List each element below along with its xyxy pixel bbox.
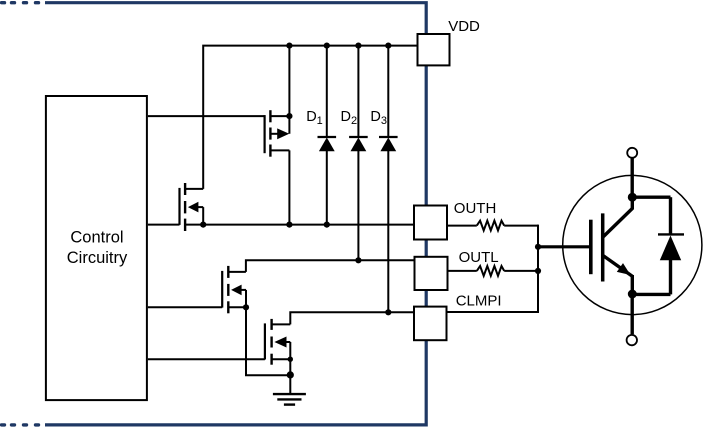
terminal collector — [627, 148, 637, 158]
node M3 source/body — [243, 304, 249, 310]
control circuitry block — [46, 96, 147, 400]
node CLMPI-D3 — [385, 309, 391, 315]
node emitter — [628, 290, 637, 299]
svg-text:CLMPI: CLMPI — [456, 293, 502, 310]
node junction OUTL — [535, 268, 541, 274]
wire M3 gate from control block — [148, 306, 222, 308]
diode D4 triangle — [660, 236, 681, 261]
svg-text:Circuitry: Circuitry — [67, 249, 128, 267]
transistor M2 — [180, 183, 204, 231]
wire M3 source to ground rail — [246, 307, 290, 375]
arrowhead Q1 emitter — [617, 263, 631, 275]
wire M2 gate + OUTH internal row — [148, 224, 180, 226]
wire M4 gate from control block — [148, 358, 265, 360]
pin CLMPI pad — [414, 307, 447, 341]
node rail-D3 — [385, 43, 391, 49]
pin OUTH pad — [414, 206, 447, 240]
diode D3 — [379, 46, 398, 313]
ground — [273, 375, 306, 405]
wire M4 source to ground — [289, 359, 291, 375]
wire collector lead — [631, 158, 634, 197]
diode D2 — [349, 46, 368, 261]
wire M1 gate from control block — [148, 115, 265, 117]
wire junction vertical — [537, 225, 539, 312]
wire OUTH row to pad — [185, 224, 414, 226]
terminal emitter — [627, 335, 637, 345]
node junction gate — [535, 244, 541, 250]
node ground junction — [287, 371, 294, 378]
resistor R1 — [477, 221, 504, 231]
wire CLMPI internal row — [290, 312, 414, 324]
diode D4 freewheel branch — [632, 197, 684, 294]
transistor Q1 IGBT — [591, 197, 633, 294]
svg-text:OUTH: OUTH — [454, 200, 497, 217]
wire CLMPI external — [447, 311, 540, 313]
transistor M4 — [265, 319, 290, 365]
pin VDD pad — [418, 34, 450, 65]
wire OUTL external + resistor R2 — [448, 270, 477, 272]
node rail-M1 — [286, 43, 292, 49]
node M2 source/body — [200, 222, 206, 228]
svg-text:Control: Control — [70, 229, 123, 247]
wire R1 to junction — [504, 225, 538, 227]
IGBT module circle — [563, 175, 702, 314]
wire R2 to junction — [504, 270, 538, 272]
node collector — [628, 193, 637, 202]
wire OUTH external + resistor R1 — [447, 225, 477, 227]
node OUTL-D2 — [355, 257, 361, 263]
diode D1 — [318, 46, 337, 225]
node M4 source/body — [288, 357, 293, 362]
node M1 drain/body — [286, 113, 292, 119]
svg-text:OUTL: OUTL — [459, 249, 499, 266]
wire IGBT gate — [538, 245, 589, 248]
node rail-D1 — [324, 43, 330, 49]
IC boundary top dotted continuation — [2, 1, 39, 4]
transistor M3 — [222, 266, 246, 313]
svg-text:VDD: VDD — [448, 18, 480, 35]
wire emitter lead — [631, 294, 634, 334]
wire OUTL internal row — [246, 260, 415, 272]
IC boundary bottom dotted continuation — [2, 423, 39, 426]
IC boundary outline — [45, 3, 426, 425]
resistor R2 — [477, 266, 504, 276]
transistor M1 (high-side PMOS) — [265, 46, 290, 225]
pin OUTL pad — [415, 257, 448, 290]
node OUTH-M1 — [286, 222, 292, 228]
wire VDD rail — [203, 46, 417, 189]
node OUTH-D1 — [324, 222, 330, 228]
node rail-D2 — [355, 43, 361, 49]
